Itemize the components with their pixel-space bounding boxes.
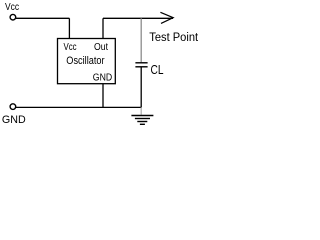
terminal GND: [10, 104, 16, 110]
wire capacitor to ground net: [140, 67, 142, 108]
wire Out to test point: [103, 17, 173, 19]
capacitor C1 bottom plate: [135, 66, 147, 68]
svg-text:GND: GND: [93, 71, 113, 83]
wire GND net horizontal: [16, 106, 141, 108]
svg-text:Oscillator: Oscillator: [66, 55, 105, 67]
terminal Vcc: [10, 14, 16, 20]
svg-text:Vcc: Vcc: [5, 2, 19, 13]
wire Vcc horizontal: [16, 17, 69, 19]
capacitor C1 top plate: [135, 62, 147, 64]
svg-text:Test Point: Test Point: [149, 32, 199, 44]
wire to earth ground: [140, 107, 142, 114]
op-amp U1 oscillator box: [58, 39, 116, 84]
wire Out pin up: [102, 18, 104, 38]
svg-text:CL: CL: [151, 63, 164, 77]
ground: [131, 116, 153, 125]
wire junction drop to capacitor: [140, 18, 142, 62]
test point arrow: [160, 12, 173, 23]
svg-text:GND: GND: [2, 114, 26, 126]
svg-text:Vcc: Vcc: [64, 41, 77, 53]
wire Vcc drop to oscillator: [68, 18, 70, 38]
wire GND pin drop: [102, 84, 104, 108]
svg-text:Out: Out: [94, 41, 108, 53]
